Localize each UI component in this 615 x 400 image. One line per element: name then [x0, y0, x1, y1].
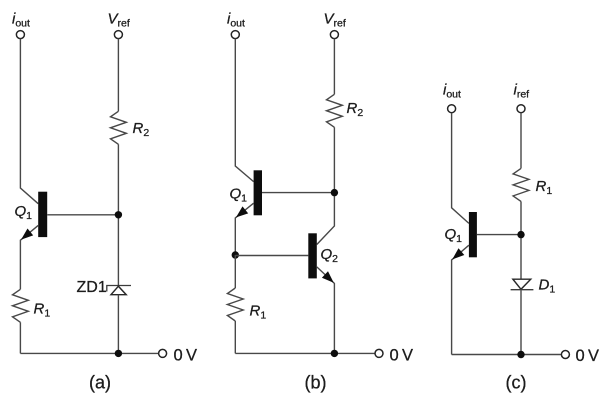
svg-text:(b): (b) [305, 373, 327, 393]
terminal V_ref (b) [330, 31, 338, 39]
svg-text:R1: R1 [536, 178, 553, 197]
terminal 0V (a) [159, 349, 167, 357]
junction Q1 base / right rail (a) [115, 211, 122, 218]
svg-text:0 V: 0 V [390, 347, 414, 365]
wire: R1 to 0V rail (b) [234, 321, 236, 353]
wire: V_ref to R2 (a) [117, 39, 119, 112]
svg-text:Q1: Q1 [230, 186, 248, 205]
resistor R2 (b) [327, 94, 343, 127]
wire: i_out terminal to Q1 collector (a) [20, 39, 38, 204]
terminal i_out (a) [16, 31, 24, 39]
wire: Q1 base to right rail (a) [47, 214, 118, 216]
wire: R2 to zener (a) [117, 144, 119, 285]
transistor Q1 (c) [469, 212, 477, 257]
transistor Q1 (a) [38, 192, 47, 237]
junction 0V rail (b) [331, 350, 338, 357]
svg-text:(a): (a) [89, 373, 111, 393]
zener diode ZD1 [107, 286, 131, 292]
wire: D1 to 0V rail (c) [520, 290, 522, 354]
wire: Q1 emitter with arrow (b) [235, 203, 253, 255]
svg-text:(c): (c) [506, 373, 527, 393]
svg-text:R2: R2 [347, 100, 364, 119]
terminal 0V (b) [375, 349, 383, 357]
terminal i_out (b) [231, 31, 239, 39]
svg-text:R1: R1 [34, 301, 51, 320]
resistor R2 (a) [111, 111, 127, 144]
terminal V_ref (a) [114, 31, 122, 39]
wire: 0V rail (a) [20, 352, 158, 354]
svg-text:0 V: 0 V [174, 347, 198, 365]
transistor Q1 (b) [254, 170, 262, 215]
resistor R1 (c) [513, 168, 529, 201]
svg-text:iref: iref [514, 82, 530, 101]
wire: i_out terminal to Q1 collector (b) [235, 39, 253, 182]
junction 0V rail (a) [115, 350, 122, 357]
wire: Q1 emitter with arrow (c) [452, 245, 469, 354]
wire: 0V rail (c) [452, 354, 562, 356]
wire: 0V rail (b) [235, 352, 375, 354]
wire: Q1 base to right rail (c) [477, 234, 521, 236]
diode D1 [513, 279, 531, 289]
wire: V_ref to R2 (b) [333, 39, 335, 95]
junction Q1 emitter / Q2 base (b) [232, 251, 239, 258]
transistor Q2 (b) [308, 233, 317, 278]
wire: i_ref to R1 (c) [520, 113, 522, 169]
svg-text:ZD1: ZD1 [77, 279, 107, 296]
wire: R2 to Q1 base junction and down to Q2 collector (b) [317, 127, 335, 244]
svg-text:Vref: Vref [324, 11, 346, 30]
svg-text:0 V: 0 V [576, 347, 600, 365]
svg-text:iout: iout [443, 82, 461, 101]
svg-text:R1: R1 [250, 303, 267, 322]
terminal i_ref (c) [517, 105, 525, 113]
svg-text:R2: R2 [133, 120, 150, 139]
svg-text:Vref: Vref [108, 11, 130, 30]
wire: node to R1 (b) [234, 255, 236, 288]
svg-text:Q1: Q1 [15, 203, 33, 222]
wire: Q1 emitter with arrow (a) [20, 225, 38, 289]
wire: Q1 base to right rail (b) [262, 192, 334, 194]
wire: Q2 emitter with arrow (b) [317, 267, 335, 354]
wire: zener to 0V rail (a) [117, 295, 119, 354]
svg-text:Q1: Q1 [445, 226, 463, 245]
junction 0V rail (c) [517, 351, 524, 358]
terminal i_out (c) [448, 105, 456, 113]
resistor R1 (a) [13, 289, 29, 322]
junction Q1 base / right rail (c) [517, 231, 524, 238]
wire: i_out terminal to Q1 collector (c) [452, 113, 469, 224]
svg-text:iout: iout [12, 11, 30, 30]
resistor R1 (b) [227, 288, 243, 321]
svg-text:D1: D1 [539, 277, 556, 296]
junction Q1 base / Q2 collector rail (b) [331, 189, 338, 196]
terminal 0V (c) [561, 351, 569, 359]
wire: R1 to 0V rail (a) [19, 322, 21, 353]
svg-text:iout: iout [227, 11, 245, 30]
svg-text:Q2: Q2 [321, 246, 339, 265]
wire: node to Q2 base (b) [235, 255, 308, 257]
wire: R1 to D1 (c) [520, 201, 522, 279]
